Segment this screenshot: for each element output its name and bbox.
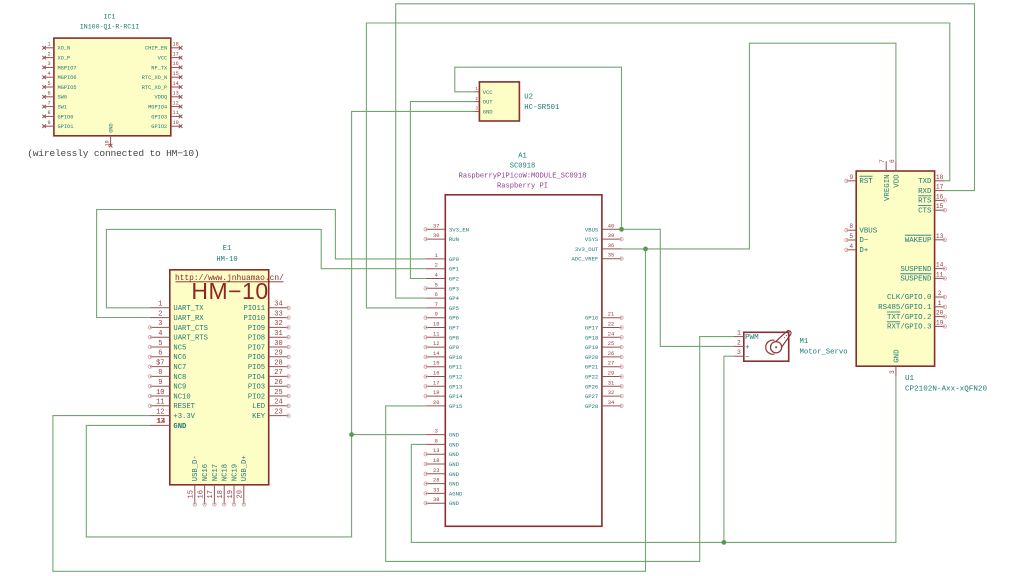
- motor M1 Motor_Servo body: [744, 332, 789, 361]
- wire net GND2: M1.- to junction: [724, 356, 734, 542]
- svg-text:11: 11: [936, 271, 944, 278]
- svg-text:XO_P: XO_P: [58, 56, 71, 62]
- svg-text:19: 19: [227, 490, 235, 498]
- E1 pin 23 KEY (right): [252, 408, 290, 421]
- U1 pin 11 SUSPEND (right): [900, 271, 946, 283]
- svg-text:31: 31: [274, 330, 282, 338]
- svg-text:GP5: GP5: [449, 305, 459, 312]
- svg-text:MGPIO6: MGPIO6: [58, 75, 77, 81]
- svg-text:GND: GND: [449, 471, 460, 478]
- svg-text:14: 14: [433, 351, 439, 357]
- IC1 pin 7 SW1 (no-connect): [42, 100, 67, 110]
- svg-text:19: 19: [104, 140, 110, 146]
- A1 pin 7 GP5 (left): [426, 302, 459, 312]
- E1 pin 7 NC7 (left): [148, 359, 186, 372]
- svg-text:1: 1: [737, 330, 741, 337]
- svg-text:GP22: GP22: [585, 374, 598, 381]
- svg-text:GND: GND: [449, 481, 460, 488]
- svg-text:PIO3: PIO3: [248, 384, 265, 392]
- svg-text:37: 37: [433, 223, 439, 229]
- svg-text:HM−10: HM−10: [191, 278, 268, 304]
- svg-text:5: 5: [435, 282, 438, 288]
- svg-text:PIO6: PIO6: [248, 354, 265, 362]
- svg-text:7: 7: [879, 159, 886, 163]
- junction on 3V3 net: [643, 247, 648, 252]
- svg-text:RTS: RTS: [918, 198, 932, 206]
- U1 pin 8 VBUS (left): [845, 223, 878, 235]
- svg-text:GP27: GP27: [585, 393, 598, 400]
- U1 pin 18 TXD (right): [918, 174, 945, 186]
- E1 pin 9 NC9 (left): [148, 379, 186, 392]
- svg-text:VDD: VDD: [894, 174, 902, 188]
- svg-text:14: 14: [172, 81, 178, 87]
- svg-text:PWM: PWM: [745, 334, 759, 342]
- svg-text:HM-10: HM-10: [216, 256, 237, 264]
- svg-text:+3.3V: +3.3V: [173, 413, 195, 421]
- svg-text:NC5: NC5: [173, 344, 186, 352]
- svg-text:D+: D+: [859, 247, 868, 255]
- A1 pin 35 ADC_VREF (right): [571, 253, 623, 263]
- svg-text:22: 22: [608, 322, 614, 328]
- IC1 pin 12 MGPIO4 (no-connect): [148, 100, 182, 110]
- svg-text:5: 5: [849, 233, 853, 240]
- svg-text:SUSPEND: SUSPEND: [900, 266, 932, 274]
- A1 pin 40 VBUS (right): [585, 223, 622, 233]
- svg-text:IN100-Q1-R-RC1I: IN100-Q1-R-RC1I: [80, 24, 139, 31]
- U1 pin 15 CTS (right): [918, 203, 946, 215]
- svg-text:NC8: NC8: [173, 374, 186, 382]
- wire net GND: U2.GND to junction: [352, 111, 475, 434]
- svg-text:$7: $7: [156, 359, 164, 367]
- svg-text:UART_TX: UART_TX: [173, 305, 204, 313]
- A1 pin 1 GP0 (left): [426, 253, 460, 263]
- svg-text:GP15: GP15: [449, 403, 462, 410]
- svg-text:16: 16: [197, 490, 205, 498]
- svg-text:15: 15: [172, 71, 178, 77]
- svg-text:2: 2: [158, 310, 162, 318]
- wire net GND: junction to A1.GND3: [352, 434, 426, 436]
- svg-text:GP26: GP26: [585, 383, 598, 390]
- svg-text:1: 1: [158, 301, 162, 309]
- svg-text:GP9: GP9: [449, 344, 459, 351]
- A1 pin 27 GP21 (right): [585, 361, 623, 371]
- wire net VBUS: U2.VCC to A1.VBUS: [455, 67, 622, 229]
- wire net PWM: A1.GP15 to M1.PWM: [386, 337, 734, 562]
- E1 pin 11 RESET (left): [148, 399, 195, 412]
- svg-text:33: 33: [274, 310, 282, 318]
- svg-text:39: 39: [608, 233, 614, 239]
- svg-text:LED: LED: [252, 403, 265, 411]
- svg-text:20: 20: [433, 400, 439, 406]
- IC1 pin 3 MGPIO7 (no-connect): [42, 61, 76, 71]
- svg-text:31: 31: [608, 380, 614, 386]
- module E1 HM-10 body: [170, 270, 269, 485]
- IC1 pin 2 XO_P (no-connect): [42, 51, 70, 61]
- wire net 3V3: A1.3V3_OUT to U1.VDD: [622, 43, 896, 249]
- svg-text:3: 3: [47, 61, 50, 67]
- svg-text:MGPIO7: MGPIO7: [58, 65, 77, 71]
- svg-text:RXT/GPIO.3: RXT/GPIO.3: [887, 324, 931, 332]
- svg-text:11: 11: [172, 110, 178, 116]
- svg-text:UART_RTS: UART_RTS: [173, 335, 208, 343]
- E1 pin 20 USB_D+ (bottom): [237, 455, 250, 506]
- E1 pin 6 NC6 (left): [148, 350, 186, 363]
- svg-text:34: 34: [608, 400, 614, 406]
- A1 pin 16 GP12 (left): [424, 371, 462, 381]
- svg-text:32: 32: [608, 390, 614, 396]
- U1 pin 4 D+ (left): [845, 243, 869, 255]
- wire net GND: junction to E1.GND: [86, 425, 351, 537]
- wire net UART_RX: E1.UART_RX to A1.GP0: [97, 210, 426, 318]
- svg-text:40: 40: [608, 223, 614, 229]
- junction at A1.VBUS: [619, 227, 624, 232]
- A1 pin 10 GP7 (left): [424, 322, 459, 332]
- E1 pin 31 PIO8 (right): [248, 330, 290, 343]
- A1 pin 34 GP28 (right): [585, 400, 623, 410]
- svg-text:18: 18: [217, 490, 225, 498]
- svg-text:GP28: GP28: [585, 403, 598, 410]
- svg-text:RaspberryPiPicoW:MODULE_SC0918: RaspberryPiPicoW:MODULE_SC0918: [459, 173, 587, 181]
- M1 pin 1 PWM: [734, 330, 759, 343]
- IC1 pin 4 MGPIO6 (no-connect): [42, 71, 76, 81]
- svg-text:17: 17: [207, 490, 215, 498]
- svg-text:21: 21: [608, 312, 614, 318]
- svg-text:GND: GND: [449, 500, 460, 507]
- wire net VBUS: A1.VBUS to M1.+: [622, 229, 735, 346]
- svg-text:NC18: NC18: [222, 464, 230, 481]
- U1 pin 7 VREGIN (top): [879, 159, 892, 201]
- svg-text:RS485/GPIO.1: RS485/GPIO.1: [878, 304, 932, 312]
- E1 pin 25 PIO2 (right): [248, 389, 290, 402]
- E1 pin 19 NC19 (bottom): [227, 464, 240, 506]
- A1 pin 26 GP20 (right): [585, 351, 623, 361]
- A1 pin 17 GP13 (left): [424, 380, 462, 390]
- svg-text:PIO5: PIO5: [248, 364, 265, 372]
- svg-text:IC1: IC1: [104, 13, 116, 20]
- svg-text:GP4: GP4: [449, 295, 460, 302]
- svg-text:2: 2: [737, 339, 741, 346]
- svg-text:GND: GND: [483, 108, 494, 115]
- svg-text:U2: U2: [524, 93, 533, 101]
- IC1 pin 15 RTC_XO_N (no-connect): [142, 71, 183, 81]
- svg-text:20: 20: [237, 490, 245, 498]
- module A1 Raspberry Pi Pico W body: [445, 195, 602, 527]
- A1 pin 38 GND (left): [424, 497, 460, 507]
- wire net RXD: U1.RXD to A1.GP4: [396, 4, 975, 298]
- svg-text:28: 28: [274, 359, 282, 367]
- svg-text:7: 7: [435, 302, 438, 308]
- svg-text:9: 9: [849, 174, 853, 181]
- IC1 pin 13 VDDQ (no-connect): [154, 91, 182, 101]
- svg-text:3: 3: [435, 429, 438, 435]
- svg-text:GP3: GP3: [449, 285, 459, 292]
- svg-text:KEY: KEY: [252, 413, 266, 421]
- svg-text:38: 38: [433, 497, 439, 503]
- svg-text:18: 18: [936, 174, 944, 181]
- svg-text:4: 4: [47, 71, 50, 77]
- svg-text:AGND: AGND: [449, 490, 463, 497]
- E1 pin 12 +3.3V (left): [150, 408, 196, 421]
- svg-text:PIO8: PIO8: [248, 335, 265, 343]
- svg-text:GP14: GP14: [449, 393, 463, 400]
- M1 pin 2 +: [734, 339, 750, 352]
- svg-text:9: 9: [435, 312, 438, 318]
- svg-text:17: 17: [936, 184, 944, 191]
- A1 pin 5 GP3 (left): [424, 282, 459, 292]
- E1 pin 10 NC10 (left): [148, 389, 190, 402]
- svg-text:CHIP_EN: CHIP_EN: [145, 46, 167, 52]
- svg-text:8: 8: [435, 438, 438, 444]
- A1 pin 4 GP2 (left): [426, 273, 459, 283]
- svg-text:PIO2: PIO2: [248, 393, 265, 401]
- svg-text:3: 3: [737, 349, 741, 356]
- svg-text:GP18: GP18: [585, 334, 598, 341]
- svg-text:2: 2: [47, 51, 50, 57]
- IC1 pin 16 RF_TX (no-connect): [151, 61, 182, 71]
- A1 pin 21 GP16 (right): [585, 312, 623, 322]
- svg-text:GND: GND: [449, 451, 460, 458]
- IC IC1 IN100-Q1-R-RC1I body: [54, 38, 171, 136]
- U1 pin 20 TXT/GPIO.2 (right): [887, 310, 947, 322]
- A1 pin 9 GP6 (left): [424, 312, 459, 322]
- svg-text:16: 16: [936, 193, 944, 200]
- svg-text:1: 1: [938, 300, 942, 307]
- svg-text:GPIO1: GPIO1: [58, 124, 74, 130]
- svg-text:6: 6: [889, 159, 896, 163]
- svg-text:28: 28: [433, 478, 439, 484]
- svg-text:(wirelessly connected to HM−10: (wirelessly connected to HM−10): [27, 148, 199, 159]
- svg-text:PIO7: PIO7: [248, 344, 265, 352]
- svg-text:GND: GND: [173, 423, 187, 431]
- svg-text:D−: D−: [859, 237, 868, 245]
- svg-text:30: 30: [274, 340, 282, 348]
- svg-text:E1: E1: [223, 245, 232, 253]
- svg-text:RST: RST: [859, 178, 873, 186]
- svg-text:23: 23: [433, 468, 439, 474]
- svg-text:GP21: GP21: [585, 364, 599, 371]
- svg-text:5: 5: [158, 340, 162, 348]
- svg-text:1: 1: [47, 42, 50, 48]
- E1 pin 8 NC8 (left): [148, 369, 186, 382]
- svg-text:GPIO0: GPIO0: [58, 114, 74, 120]
- svg-text:33: 33: [433, 487, 439, 493]
- U1 pin 16 RTS (right): [918, 193, 946, 205]
- svg-text:SC0918: SC0918: [510, 163, 536, 171]
- E1 pin 18 NC18 (bottom): [217, 464, 230, 506]
- IC1 pin 14 RTC_XO_P (no-connect): [142, 81, 183, 91]
- svg-text:GP2: GP2: [449, 276, 459, 283]
- svg-text:12: 12: [172, 100, 178, 106]
- E1 pin 28 PIO5 (right): [248, 359, 290, 372]
- A1 pin 15 GP11 (left): [424, 361, 463, 371]
- IC1 pin 5 MGPIO5 (no-connect): [42, 81, 76, 91]
- A1 pin 33 AGND (left): [424, 487, 463, 497]
- svg-text:GPIO3: GPIO3: [151, 114, 167, 120]
- svg-text:10: 10: [156, 389, 164, 397]
- svg-text:8: 8: [849, 223, 853, 230]
- svg-text:4: 4: [849, 243, 853, 250]
- svg-text:18: 18: [172, 42, 178, 48]
- svg-text:MGPIO4: MGPIO4: [148, 105, 167, 111]
- M1 servo horn graphic: [766, 328, 794, 354]
- IC1 pin 17 VCC (no-connect): [158, 51, 183, 61]
- svg-text:GP13: GP13: [449, 383, 462, 390]
- E1 pin 17 NC17 (bottom): [207, 464, 220, 506]
- svg-text:26: 26: [274, 379, 282, 387]
- IC1 pin 18 CHIP_EN (no-connect): [145, 42, 182, 52]
- svg-text:−: −: [745, 354, 750, 362]
- svg-text:12: 12: [156, 408, 164, 416]
- svg-text:VSYS: VSYS: [585, 236, 599, 243]
- E1 pin 27 PIO4 (right): [248, 369, 290, 382]
- svg-text:U1: U1: [905, 375, 915, 383]
- svg-text:CP2102N-Axx-xQFN20: CP2102N-Axx-xQFN20: [905, 386, 987, 394]
- svg-text:TXD: TXD: [918, 178, 932, 186]
- svg-text:9: 9: [158, 379, 162, 387]
- svg-text:3: 3: [158, 320, 162, 328]
- svg-text:NC7: NC7: [173, 364, 186, 372]
- svg-text:1: 1: [435, 253, 438, 259]
- svg-text:NC10: NC10: [173, 393, 190, 401]
- E1 pin 34 PIO11 (right): [244, 301, 291, 314]
- svg-text:24: 24: [274, 399, 282, 407]
- svg-text:27: 27: [274, 369, 282, 377]
- svg-text:30: 30: [433, 233, 439, 239]
- A1 pin 24 GP18 (right): [585, 331, 623, 341]
- svg-text:13: 13: [936, 233, 944, 240]
- U1 pin 19 RXT/GPIO.3 (right): [887, 319, 947, 331]
- svg-text:SW0: SW0: [58, 95, 68, 101]
- wire net TXD: U1.TXD to A1.GP5: [366, 23, 949, 308]
- U2 pin 2 OUT: [475, 98, 494, 106]
- svg-text:20: 20: [936, 310, 944, 317]
- U1 pin 13 WAKEUP (right): [905, 233, 947, 245]
- svg-text:16: 16: [433, 371, 439, 377]
- U2 pin 3 GND: [475, 108, 494, 116]
- svg-text:USB_D+: USB_D+: [241, 455, 249, 481]
- svg-text:2: 2: [938, 290, 942, 297]
- svg-text:RF_TX: RF_TX: [151, 65, 168, 71]
- A1 pin 18 GND (left): [424, 458, 460, 468]
- svg-text:11: 11: [156, 399, 164, 407]
- U1 pin 1 RS485/GPIO.1 (right): [878, 300, 946, 312]
- svg-text:VCC: VCC: [158, 56, 168, 62]
- E1 pin 33 PIO10 (right): [244, 310, 291, 323]
- A1 pin 14 GP10 (left): [424, 351, 463, 361]
- svg-text:4: 4: [158, 330, 162, 338]
- IC1 pin 19 GND (bottom, no-connect): [104, 123, 114, 147]
- svg-text:6: 6: [47, 91, 50, 97]
- svg-text:VBUS: VBUS: [585, 226, 599, 233]
- svg-text:ADC_VREF: ADC_VREF: [571, 256, 598, 263]
- svg-text:13: 13: [433, 448, 439, 454]
- E1 pin 26 PIO3 (right): [248, 379, 290, 392]
- U1 pin 2 CLK/GPIO.0 (right): [887, 290, 946, 302]
- svg-text:11: 11: [433, 331, 439, 337]
- A1 pin 2 GP1 (left): [426, 263, 460, 273]
- svg-text:NC19: NC19: [231, 464, 239, 481]
- A1 pin 6 GP4 (left): [426, 292, 460, 302]
- svg-text:NC16: NC16: [202, 464, 210, 481]
- svg-text:27: 27: [608, 361, 614, 367]
- svg-text:RXD: RXD: [918, 188, 932, 196]
- svg-text:7: 7: [47, 100, 50, 106]
- svg-text:6: 6: [435, 292, 438, 298]
- svg-text:GP12: GP12: [449, 374, 462, 381]
- U1 pin 6 VDD (top): [889, 159, 902, 188]
- svg-text:5: 5: [47, 81, 50, 87]
- A1 pin 29 GP22 (right): [585, 371, 623, 381]
- svg-text:19: 19: [936, 319, 944, 326]
- E1 pin 13 GND (left): [150, 418, 187, 431]
- svg-text:VDDQ: VDDQ: [154, 95, 167, 101]
- junction on GND2 net: [722, 540, 727, 545]
- E1 pin 29 PIO6 (right): [248, 350, 290, 363]
- junction on GND net: [349, 432, 354, 437]
- svg-text:24: 24: [608, 331, 614, 337]
- svg-text:8: 8: [47, 110, 50, 116]
- E1 pin 2 UART_RX (left): [150, 310, 204, 323]
- svg-text:15: 15: [188, 490, 196, 498]
- svg-text:GND: GND: [449, 432, 460, 439]
- svg-text:PIO9: PIO9: [248, 325, 265, 333]
- svg-text:GP7: GP7: [449, 325, 459, 332]
- A1 pin 3 GND (left): [426, 429, 460, 439]
- E1 pin 5 NC5 (left): [148, 340, 186, 353]
- A1 pin 23 GND (left): [424, 468, 460, 478]
- svg-text:19: 19: [433, 390, 439, 396]
- A1 pin 22 GP17 (right): [585, 322, 623, 332]
- svg-text:GP17: GP17: [585, 325, 598, 332]
- svg-text:RTC_XO_P: RTC_XO_P: [142, 85, 167, 91]
- svg-text:29: 29: [608, 371, 614, 377]
- A1 pin 19 GP14 (left): [424, 390, 463, 400]
- svg-text:3V3_EN: 3V3_EN: [449, 226, 469, 233]
- A1 pin 13 GND (left): [424, 448, 460, 458]
- svg-text:PIO10: PIO10: [244, 315, 266, 323]
- svg-text:36: 36: [608, 243, 614, 249]
- svg-text:NC6: NC6: [173, 354, 186, 362]
- svg-text:WAKEUP: WAKEUP: [905, 237, 932, 245]
- E1 pin 30 PIO7 (right): [248, 340, 290, 353]
- svg-text:PIO4: PIO4: [248, 374, 265, 382]
- E1 pin 24 LED (right): [252, 399, 290, 412]
- svg-text:25: 25: [608, 341, 614, 347]
- wire net GND2: junction to A1.GND8: [411, 444, 724, 542]
- IC1 pin 9 GPIO1 (no-connect): [42, 120, 73, 130]
- svg-text:UART_RX: UART_RX: [173, 315, 204, 323]
- svg-text:NC9: NC9: [173, 384, 186, 392]
- A1 pin 39 VSYS (right): [585, 233, 623, 243]
- svg-text:Raspberry PI: Raspberry PI: [497, 183, 548, 191]
- svg-text:USB_D-: USB_D-: [192, 455, 200, 481]
- svg-text:17: 17: [172, 51, 178, 57]
- svg-text:RUN: RUN: [449, 236, 459, 243]
- A1 pin 37 3V3_EN (left): [424, 223, 469, 233]
- svg-text:CLK/GPIO.0: CLK/GPIO.0: [887, 294, 931, 302]
- svg-text:GP19: GP19: [585, 344, 598, 351]
- svg-text:UART_CTS: UART_CTS: [173, 325, 208, 333]
- svg-text:GND: GND: [449, 441, 460, 448]
- svg-text:4: 4: [435, 273, 438, 279]
- svg-text:GP16: GP16: [585, 315, 598, 322]
- svg-text:VBUS: VBUS: [859, 227, 877, 235]
- E1 pin 1 UART_TX (left): [150, 301, 204, 314]
- E1 pin 15 USB_D- (bottom): [188, 455, 201, 506]
- svg-text:9: 9: [47, 120, 50, 126]
- svg-text:M1: M1: [800, 338, 809, 346]
- E1 pin 32 PIO9 (right): [248, 320, 290, 333]
